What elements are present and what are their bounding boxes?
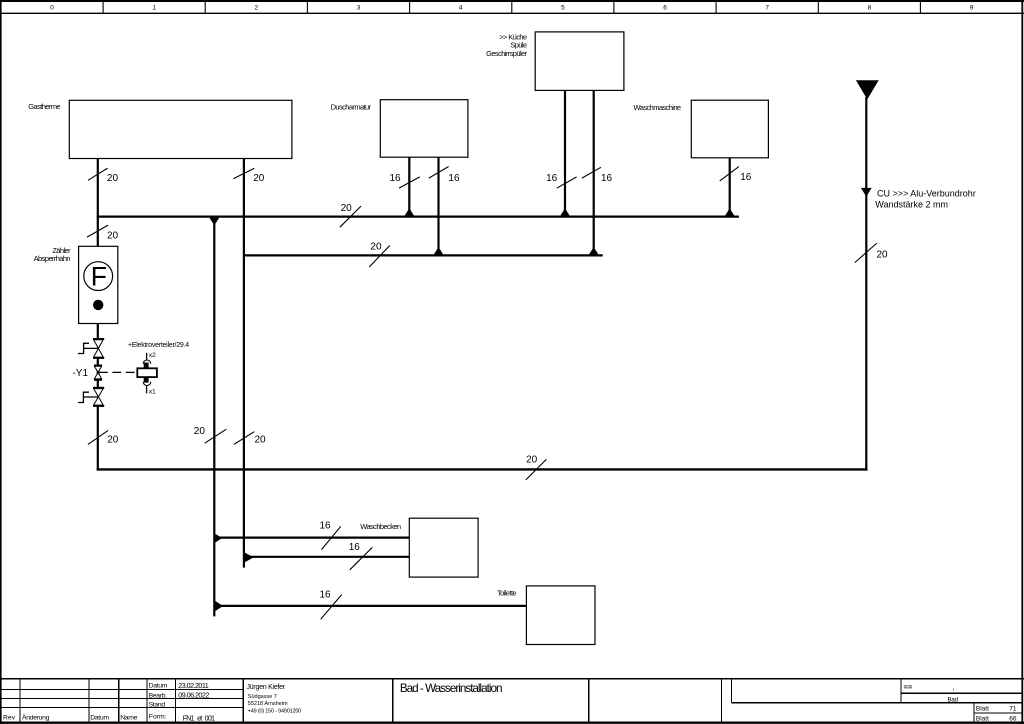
ruler divider 9	[919, 0, 921, 13]
title block column right section	[730, 679, 732, 703]
valve 2 bowtie	[94, 366, 101, 379]
svg-text:5: 5	[561, 5, 565, 12]
svg-text:Rev: Rev	[3, 715, 16, 722]
svg-text:Wandstärke 2 mm: Wandstärke 2 mm	[875, 199, 948, 209]
svg-text:Stand: Stand	[149, 702, 166, 709]
title block column equals cell	[900, 679, 902, 703]
pipe main line 1	[97, 216, 739, 218]
valve 1 manual lever	[78, 343, 99, 353]
coil bottom plug	[144, 377, 149, 383]
title block column Datum	[118, 679, 120, 723]
dimension slash bottom return	[526, 459, 547, 480]
ruler divider 7	[715, 0, 717, 13]
pipe right main vertical	[865, 97, 867, 471]
ruler bottom line	[0, 12, 1024, 14]
svg-text:2: 2	[254, 5, 258, 12]
junction arrow up Duscharmatur left on line 1	[405, 208, 414, 216]
ruler divider 4	[409, 0, 411, 13]
box Waschmaschine	[691, 100, 768, 158]
valve 2 solenoid top cap	[94, 365, 102, 367]
svg-text:Bad - Wasserinstallation: Bad - Wasserinstallation	[400, 682, 502, 695]
svg-text:20: 20	[107, 435, 119, 446]
svg-text:1: 1	[152, 5, 156, 12]
valve 2 solenoid bottom cap	[94, 379, 102, 381]
pipe bottom return line	[97, 468, 868, 470]
ruler divider 8	[817, 0, 819, 13]
box Gastherme	[69, 100, 292, 158]
dashed control line	[99, 371, 137, 373]
dimension slash Waschbecken lower	[350, 547, 373, 569]
svg-text:16: 16	[448, 173, 460, 184]
junction arrow right Toilette	[215, 601, 223, 611]
svg-text:+49 (0) 150 - 94901200: +49 (0) 150 - 94901200	[248, 708, 301, 714]
valve 1 shutoff top cap	[93, 338, 104, 340]
dimension slash Gastherme right	[233, 168, 254, 179]
page bottom border	[0, 722, 1024, 724]
junction arrow up Waschmaschine on line 1	[725, 208, 734, 216]
title block column Name	[146, 679, 148, 723]
svg-text:16: 16	[320, 590, 332, 601]
svg-text:Waschmaschine: Waschmaschine	[634, 103, 681, 112]
dimension slash left riser lower	[88, 430, 108, 444]
ruler divider 3	[306, 0, 308, 13]
svg-text:16: 16	[546, 173, 558, 184]
dimension slash Gastherme left	[88, 168, 108, 180]
svg-text:55218 Arnsheim: 55218 Arnsheim	[248, 701, 288, 707]
ruler divider 2	[204, 0, 206, 13]
dimension slash right main	[855, 243, 877, 263]
svg-text:3: 3	[357, 5, 361, 12]
junction arrow up Kueche right on line 2	[589, 247, 598, 255]
coil bottom arc	[143, 382, 151, 386]
svg-text:20: 20	[526, 455, 538, 466]
svg-text:9: 9	[970, 5, 974, 12]
valve 2 center plug	[97, 371, 100, 374]
ruler divider 5	[511, 0, 513, 13]
svg-text:16: 16	[740, 172, 752, 183]
pipe Duscharmatur left drop	[408, 157, 410, 216]
junction arrow up Kueche left on line 1	[560, 208, 569, 216]
dimension slash above Zaehler	[87, 225, 108, 237]
meter circle F	[84, 262, 113, 291]
coil pin x1	[146, 386, 148, 393]
svg-text:20: 20	[370, 242, 382, 253]
flow arrow small right main	[861, 188, 872, 197]
svg-text:Änderung: Änderung	[22, 714, 50, 722]
pipe valve3 to bottom line	[97, 406, 99, 471]
junction arrow down at branch vertical on line 1	[209, 218, 219, 226]
pipe Waschmaschine drop	[729, 158, 731, 216]
svg-text:Waschbecken: Waschbecken	[360, 522, 401, 531]
svg-text:FN1_et_001: FN1_et_001	[183, 713, 215, 722]
title block right section row line	[731, 702, 1022, 704]
title block row line 2	[1, 698, 243, 700]
coil body U1	[137, 368, 157, 377]
pipe valve1 to valve2 segment	[97, 358, 99, 366]
title block column address	[242, 679, 244, 723]
title block column Aenderung	[88, 679, 90, 723]
title block column spare	[588, 679, 590, 723]
svg-text:Gastherme: Gastherme	[28, 102, 60, 111]
box Toilette	[526, 586, 595, 645]
svg-text:F: F	[91, 262, 107, 292]
svg-text:16: 16	[389, 173, 401, 184]
dimension slash Waschmaschine	[720, 167, 739, 181]
svg-text:Bad: Bad	[948, 696, 959, 703]
dimension slash Gastherme right lower	[234, 432, 254, 445]
svg-text:x2: x2	[149, 352, 156, 359]
pipe Gastherme left drop	[97, 159, 99, 247]
box Kueche Spuele Geschirrspueler	[535, 32, 624, 91]
supply arrow big top right	[856, 80, 879, 99]
svg-text:x1: x1	[149, 389, 156, 396]
title block Blatt row line	[974, 712, 1023, 714]
svg-text:-Y1: -Y1	[72, 368, 88, 379]
page left border	[0, 0, 2, 724]
svg-text:20: 20	[255, 435, 267, 446]
dimension slash Kueche right	[582, 167, 601, 178]
svg-text:Datum: Datum	[90, 715, 109, 722]
coil top plug	[144, 363, 149, 369]
svg-text:Blatt: Blatt	[976, 716, 989, 723]
pipe meter to valve segment	[97, 324, 99, 340]
dimension slash Duscharmatur left	[399, 177, 420, 188]
valve 3 shutoff bottom cap	[93, 405, 104, 407]
svg-text:20: 20	[107, 173, 119, 184]
svg-text:20: 20	[253, 173, 265, 184]
svg-text:Toilette: Toilette	[497, 589, 516, 598]
svg-text:09.06.2022: 09.06.2022	[178, 691, 209, 700]
dimension slash Toilette	[321, 595, 342, 620]
valve 1 bowtie	[94, 340, 104, 357]
svg-text:,: ,	[953, 683, 955, 692]
svg-text:23.02.2011: 23.02.2011	[178, 681, 208, 690]
page top border	[0, 0, 1024, 2]
junction arrow right Waschbecken lower	[245, 553, 254, 563]
junction arrow right Waschbecken upper	[215, 534, 222, 543]
svg-text:+Elektroverteiler/29.4: +Elektroverteiler/29.4	[128, 342, 189, 349]
svg-text:4: 4	[459, 5, 463, 12]
valve 3 bowtie	[94, 389, 104, 406]
svg-text:20: 20	[341, 203, 353, 214]
dimension slash Duscharmatur right	[429, 167, 449, 179]
pipe Toilette branch	[214, 605, 526, 607]
pipe Waschbecken lower branch	[244, 556, 409, 558]
coil top arc	[143, 360, 151, 364]
title block top border	[0, 678, 1024, 680]
svg-text:Duscharmatur: Duscharmatur	[331, 102, 372, 111]
meter dot	[93, 300, 103, 310]
svg-text:16: 16	[349, 542, 361, 553]
svg-text:20: 20	[107, 230, 119, 241]
svg-text:Datum: Datum	[149, 683, 168, 690]
svg-text:Form:: Form:	[149, 714, 167, 721]
title block column narrow	[721, 679, 723, 723]
pipe Duscharmatur right drop	[437, 157, 439, 255]
pipe Gastherme right drop	[243, 159, 245, 568]
pipe Kueche right drop	[593, 90, 595, 254]
svg-text:16: 16	[320, 521, 332, 532]
dimension slash branch vertical	[205, 429, 227, 443]
svg-text:0: 0	[50, 5, 54, 12]
svg-text:Absperrhahn: Absperrhahn	[34, 254, 71, 263]
svg-text:20: 20	[194, 426, 206, 437]
svg-text:Bearb.: Bearb.	[149, 692, 168, 699]
pipe valve2 to valve3 segment	[97, 380, 99, 388]
title block column Form	[174, 679, 176, 723]
svg-text:20: 20	[877, 249, 889, 260]
pipe branch vertical	[213, 217, 215, 617]
valve 3 shutoff top cap	[93, 387, 104, 389]
svg-text:CU >>> Alu-Verbundrohr: CU >>> Alu-Verbundrohr	[877, 189, 976, 199]
pipe Waschbecken upper branch	[214, 536, 409, 538]
svg-text:7: 7	[765, 5, 769, 12]
junction arrow up Duscharmatur right on line 2	[434, 247, 443, 255]
svg-text:Blatt: Blatt	[976, 705, 989, 712]
svg-text:Jürgen Kiefer: Jürgen Kiefer	[247, 684, 286, 691]
title block row line 3	[1, 706, 243, 708]
svg-text:6: 6	[663, 5, 667, 12]
page right border	[1021, 0, 1023, 724]
dimension slash main line 1	[340, 206, 361, 227]
title block column title	[392, 679, 394, 723]
svg-text:71: 71	[1009, 705, 1017, 712]
ruler divider 6	[613, 0, 615, 13]
title block row line 1	[1, 689, 243, 691]
svg-text:8: 8	[868, 5, 872, 12]
dimension slash main line 2	[369, 246, 390, 268]
title block column Rev	[19, 679, 21, 723]
valve 3 manual lever	[78, 392, 98, 402]
svg-text:Südgasse 7: Südgasse 7	[248, 694, 277, 700]
svg-text:Name: Name	[120, 715, 137, 722]
pipe Kueche left drop	[564, 90, 566, 216]
svg-text:==: ==	[904, 683, 913, 692]
svg-text:16: 16	[601, 173, 613, 184]
meter box Zaehler Absperrhahn	[79, 246, 118, 323]
coil pin x2	[146, 353, 148, 360]
ruler divider 1	[102, 0, 104, 13]
pipe main line 2	[244, 254, 603, 256]
title block Blatt column	[973, 703, 975, 723]
svg-text:66: 66	[1009, 716, 1017, 723]
dimension slash Kueche left	[557, 177, 577, 188]
svg-text:Geschirrspüler: Geschirrspüler	[486, 49, 527, 58]
box Duscharmatur	[380, 100, 468, 158]
box Waschbecken	[409, 518, 478, 577]
title block equals row line	[901, 692, 1023, 694]
dimension slash Waschbecken upper	[322, 526, 341, 549]
valve 1 shutoff bottom cap	[93, 357, 104, 359]
